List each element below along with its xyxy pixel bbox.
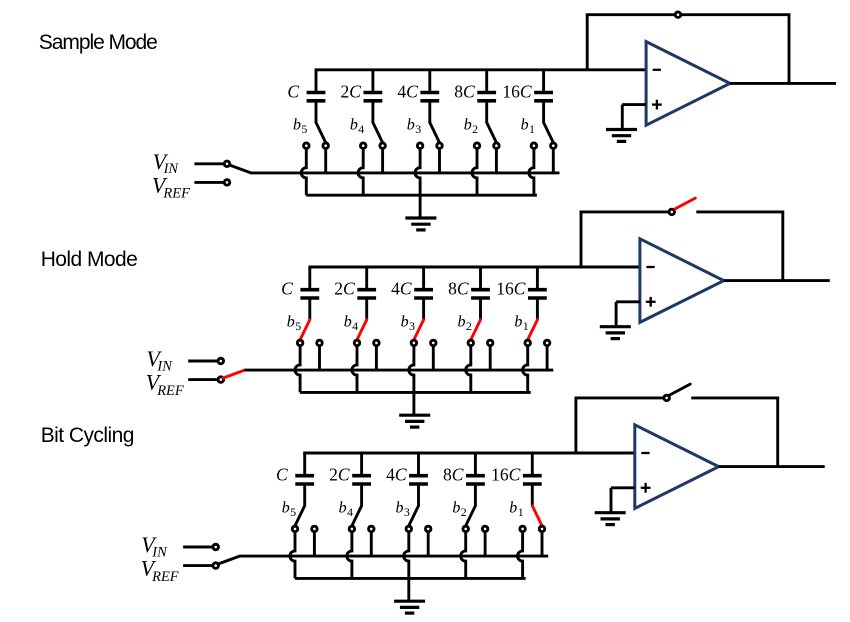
switch b4 lever (sample)	[350, 116, 383, 142]
svg-text:b: b	[339, 500, 347, 517]
svg-text:b: b	[521, 116, 529, 133]
switch b4 left contact + wire to ground bus (hold)	[352, 340, 360, 392]
switch b5 left contact + wire to ground bus (cycle)	[290, 526, 298, 578]
switch b2 left contact + wire to ground bus (sample)	[472, 143, 480, 195]
svg-text:C: C	[281, 279, 293, 299]
wire: feedback top right segment (cycle)	[691, 396, 779, 399]
switch b5 right contact + wire to input bus (sample)	[323, 143, 329, 173]
switch S_in input selector (sample)	[229, 165, 251, 173]
wire: top-plate rail to op-amp inverting input (cycle)	[303, 452, 635, 455]
node V_REF (sample)	[152, 173, 230, 202]
op-amp U (cycle)	[635, 425, 719, 509]
wire: top-plate rail to op-amp inverting input (hold)	[308, 266, 640, 269]
svg-text:C: C	[287, 81, 299, 101]
switch b3 left contact + wire to ground bus (sample)	[415, 143, 423, 195]
svg-text:3: 3	[409, 319, 415, 333]
switch b5 left contact + wire to ground bus (hold)	[295, 340, 303, 392]
switch b3 right contact + wire to input bus (cycle)	[425, 526, 431, 556]
wire: top-plate rail to op-amp inverting input (sample)	[315, 68, 646, 71]
wire: feedback top left segment (cycle)	[575, 396, 664, 399]
wire: feedback left vertical (hold)	[580, 212, 583, 267]
capacitor 4C (cycle)	[386, 453, 428, 506]
switch b4 right contact + wire to input bus (hold)	[374, 340, 380, 370]
op-amp U (sample)	[646, 42, 730, 126]
svg-text:4: 4	[352, 319, 358, 333]
label: Bit Cycling title	[41, 424, 134, 447]
switch b2 right contact + wire to input bus (hold)	[487, 340, 493, 370]
wire: feedback right vertical (hold)	[781, 212, 784, 281]
svg-text:16C: 16C	[502, 81, 532, 101]
switch S_fb feedback (open, hold)	[669, 198, 695, 215]
wire: op-amp output (sample)	[730, 82, 836, 85]
svg-text:b: b	[287, 314, 295, 331]
switch b1 right contact + wire to input bus (cycle)	[539, 526, 545, 556]
wire: feedback left vertical (sample)	[586, 15, 589, 70]
wire: feedback right vertical (cycle)	[776, 398, 779, 467]
svg-text:Sample Mode: Sample Mode	[39, 31, 157, 54]
switch b4 right contact + wire to input bus (cycle)	[369, 526, 375, 556]
capacitor C (hold)	[281, 267, 319, 320]
node V_IN (cycle)	[141, 532, 218, 560]
ground (op-amp non-inverting input, hold)	[600, 302, 640, 339]
switch b2 lever (cycle)	[452, 500, 475, 526]
wire: feedback left vertical (cycle)	[574, 398, 577, 453]
svg-text:b: b	[282, 500, 290, 517]
switch b4 lever (hold)	[344, 314, 367, 340]
svg-text:2: 2	[461, 505, 467, 519]
wire: op-amp output (cycle)	[719, 465, 825, 468]
svg-text:b: b	[350, 116, 358, 133]
capacitor 4C (hold)	[391, 267, 433, 320]
svg-text:5: 5	[295, 319, 301, 333]
capacitor 8C (sample)	[454, 70, 496, 123]
switch b3 lever (hold)	[401, 314, 424, 340]
svg-text:b: b	[396, 500, 404, 517]
svg-text:2: 2	[466, 319, 472, 333]
svg-text:5: 5	[290, 505, 296, 519]
switch S_fb feedback (open, cycle)	[664, 384, 690, 401]
switch b3 lever (sample)	[407, 116, 440, 142]
switch S_in input selector (hold)	[223, 370, 245, 378]
switch b4 left contact + wire to ground bus (cycle)	[347, 526, 355, 578]
capacitor 2C (hold)	[334, 267, 376, 320]
capacitor 16C (sample)	[502, 70, 553, 123]
svg-text:2C: 2C	[334, 279, 355, 299]
capacitor 2C (sample)	[340, 70, 382, 123]
svg-text:Bit Cycling: Bit Cycling	[41, 424, 134, 447]
wire: feedback top left segment (hold)	[580, 210, 669, 213]
node V_IN (hold)	[146, 346, 223, 374]
capacitor 16C (cycle)	[491, 453, 542, 506]
op-amp U (hold)	[640, 239, 724, 323]
capacitor 16C (hold)	[496, 267, 547, 320]
switch b2 left contact + wire to ground bus (cycle)	[461, 526, 469, 578]
switch b2 right contact + wire to input bus (sample)	[494, 143, 500, 173]
switch b5 right contact + wire to input bus (cycle)	[312, 526, 318, 556]
capacitor C (sample)	[287, 70, 325, 123]
switch b1 left contact + wire to ground bus (cycle)	[518, 526, 526, 578]
svg-text:4C: 4C	[386, 465, 407, 485]
svg-text:5: 5	[301, 122, 307, 136]
switch b1 left contact + wire to ground bus (sample)	[529, 143, 537, 195]
svg-text:2C: 2C	[329, 465, 350, 485]
switch b3 right contact + wire to input bus (hold)	[431, 340, 437, 370]
wire: ground bus (hold)	[300, 391, 531, 394]
switch b1 right contact + wire to input bus (sample)	[551, 143, 557, 173]
svg-text:Hold Mode: Hold Mode	[41, 248, 138, 271]
switch b5 lever (hold)	[287, 314, 310, 340]
wire: ground bus (sample)	[306, 194, 537, 197]
switch b4 left contact + wire to ground bus (sample)	[358, 143, 366, 195]
wire: input bus (sample)	[251, 171, 560, 174]
switch b3 lever (cycle)	[396, 500, 419, 526]
switch b1 lever (hold)	[514, 314, 537, 340]
switch b5 lever (cycle)	[282, 500, 305, 526]
switch b1 left contact + wire to ground bus (hold)	[523, 340, 531, 392]
switch b3 right contact + wire to input bus (sample)	[437, 143, 443, 173]
svg-text:1: 1	[529, 122, 535, 136]
switch b2 lever (sample)	[464, 116, 497, 142]
svg-text:8C: 8C	[443, 465, 464, 485]
wire: feedback right vertical (sample)	[788, 15, 791, 84]
switch b3 left contact + wire to ground bus (cycle)	[404, 526, 412, 578]
svg-text:b: b	[464, 116, 472, 133]
capacitor 4C (sample)	[397, 70, 439, 123]
ground (op-amp non-inverting input, cycle)	[595, 488, 635, 525]
svg-text:1: 1	[523, 319, 529, 333]
svg-text:b: b	[401, 314, 409, 331]
ground (op-amp non-inverting input, sample)	[606, 105, 646, 142]
label: Sample Mode title	[39, 31, 157, 54]
svg-text:b: b	[344, 314, 352, 331]
switch b2 right contact + wire to input bus (cycle)	[482, 526, 488, 556]
ground (capacitor array, sample)	[405, 195, 436, 230]
svg-text:REF: REF	[156, 383, 184, 399]
node V_REF (hold)	[146, 370, 224, 399]
switch b4 right contact + wire to input bus (sample)	[380, 143, 386, 173]
capacitor 2C (cycle)	[329, 453, 371, 506]
node V_REF (cycle)	[141, 556, 219, 585]
svg-text:16C: 16C	[496, 279, 526, 299]
wire: input bus (cycle)	[239, 555, 548, 558]
svg-text:REF: REF	[151, 569, 179, 585]
svg-text:b: b	[407, 116, 415, 133]
ground (capacitor array, hold)	[399, 392, 430, 427]
svg-text:4: 4	[347, 505, 353, 519]
svg-text:C: C	[276, 465, 288, 485]
ground (capacitor array, cycle)	[394, 578, 425, 613]
wire: op-amp output (hold)	[724, 279, 830, 282]
svg-text:b: b	[509, 500, 517, 517]
capacitor C (cycle)	[276, 453, 314, 506]
svg-text:4C: 4C	[391, 279, 412, 299]
node V_IN (sample)	[153, 149, 230, 177]
svg-text:2: 2	[472, 122, 478, 136]
svg-text:2C: 2C	[340, 81, 361, 101]
svg-text:8C: 8C	[448, 279, 469, 299]
wire: feedback top (sample)	[586, 13, 791, 16]
wire: ground bus (cycle)	[295, 577, 526, 580]
label: Hold Mode title	[41, 248, 138, 271]
switch b4 lever (cycle)	[339, 500, 362, 526]
capacitor 8C (cycle)	[443, 453, 485, 506]
switch b2 left contact + wire to ground bus (hold)	[466, 340, 474, 392]
switch b5 lever (sample)	[293, 116, 326, 142]
svg-text:3: 3	[415, 122, 421, 136]
svg-text:b: b	[452, 500, 460, 517]
svg-text:1: 1	[518, 505, 524, 519]
svg-text:b: b	[293, 116, 301, 133]
switch b1 lever (sample)	[521, 116, 554, 142]
svg-text:4: 4	[358, 122, 364, 136]
svg-text:16C: 16C	[491, 465, 521, 485]
wire: input bus (hold)	[245, 369, 554, 372]
svg-text:8C: 8C	[454, 81, 475, 101]
switch S_in input selector (cycle)	[218, 556, 240, 564]
switch b3 left contact + wire to ground bus (hold)	[409, 340, 417, 392]
switch b5 left contact + wire to ground bus (sample)	[301, 143, 309, 195]
switch b1 right contact + wire to input bus (hold)	[544, 340, 550, 370]
switch b5 right contact + wire to input bus (hold)	[317, 340, 323, 370]
svg-text:b: b	[458, 314, 466, 331]
switch b1 lever (cycle)	[509, 500, 542, 526]
svg-text:b: b	[514, 314, 522, 331]
svg-text:4C: 4C	[397, 81, 418, 101]
switch b2 lever (hold)	[458, 314, 481, 340]
switch S_fb feedback (closed, sample)	[675, 12, 681, 18]
wire: feedback top right segment (hold)	[696, 210, 784, 213]
capacitor 8C (hold)	[448, 267, 490, 320]
svg-text:3: 3	[404, 505, 410, 519]
svg-text:REF: REF	[162, 186, 190, 202]
